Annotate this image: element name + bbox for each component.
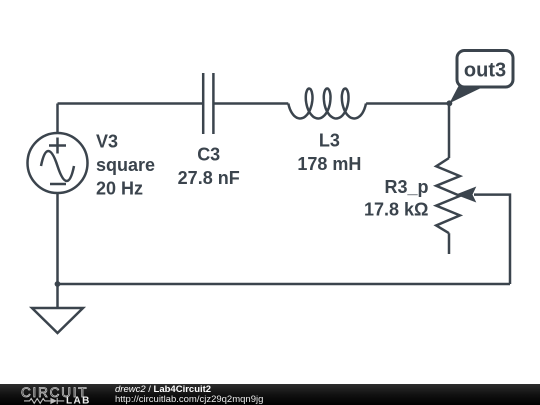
wire right vertical (wiper to bottom) bbox=[474, 195, 510, 284]
potentiometer R3_p bbox=[436, 104, 476, 255]
node out3 flag bbox=[449, 51, 513, 104]
node out3 flag rounded box bbox=[457, 51, 513, 88]
junction dot bottom-left bbox=[55, 281, 61, 287]
svg-text:L3: L3 bbox=[319, 130, 340, 150]
svg-text:http://circuitlab.com/cjz29q2m: http://circuitlab.com/cjz29q2mqn9jg bbox=[115, 394, 263, 405]
wire inductor to node out3 bbox=[366, 102, 449, 105]
svg-text:178 mH: 178 mH bbox=[297, 154, 361, 174]
voltage source V3 circle body bbox=[28, 133, 88, 193]
ground bbox=[32, 284, 83, 333]
junction dot at node out3 bbox=[447, 100, 453, 106]
potentiometer R3_p wiper arrow bbox=[456, 187, 477, 203]
wire source bottom lead bbox=[56, 193, 59, 284]
wire capacitor to inductor bbox=[213, 102, 288, 105]
voltage source V3 sine wave bbox=[41, 151, 74, 181]
svg-text:C3: C3 bbox=[197, 145, 220, 165]
logo CIRCUIT LAB bbox=[21, 385, 91, 405]
svg-text:27.8 nF: 27.8 nF bbox=[178, 168, 240, 188]
wire bottom horizontal bbox=[58, 283, 511, 286]
inductor L3 bbox=[288, 89, 366, 119]
node out3 flag pointer tail bbox=[449, 86, 482, 103]
wire left vertical (source top lead) bbox=[56, 104, 59, 134]
capacitor C3 left plate bbox=[202, 73, 205, 134]
svg-text:square: square bbox=[96, 155, 155, 175]
capacitor C3 bbox=[203, 73, 213, 134]
svg-text:17.8 kΩ: 17.8 kΩ bbox=[364, 199, 428, 219]
logo diode bar and wire bbox=[57, 398, 64, 404]
wire top-left horizontal bbox=[58, 102, 203, 105]
voltage source V3 bbox=[28, 133, 88, 193]
potentiometer R3_p pin 1 top lead bbox=[448, 104, 451, 159]
svg-text:R3_p: R3_p bbox=[384, 177, 428, 197]
footer title text bbox=[115, 384, 263, 405]
logo resistor squiggle bbox=[24, 399, 50, 404]
svg-text:V3: V3 bbox=[96, 132, 118, 152]
logo diode triangle bbox=[50, 398, 57, 404]
svg-text:out3: out3 bbox=[464, 60, 506, 82]
voltage source V3 minus sign bbox=[50, 183, 66, 186]
svg-text:20 Hz: 20 Hz bbox=[96, 178, 143, 198]
potentiometer R3_p resistor zigzag body bbox=[436, 158, 460, 233]
potentiometer R3_p pin 2 bottom lead (floating) bbox=[448, 233, 451, 254]
capacitor C3 right plate bbox=[212, 73, 215, 134]
ground lead stub bbox=[56, 284, 59, 308]
footer bar bbox=[0, 384, 540, 405]
voltage source V3 plus sign bbox=[49, 138, 66, 154]
ground triangle bbox=[32, 308, 83, 333]
svg-text:LAB: LAB bbox=[66, 396, 91, 405]
